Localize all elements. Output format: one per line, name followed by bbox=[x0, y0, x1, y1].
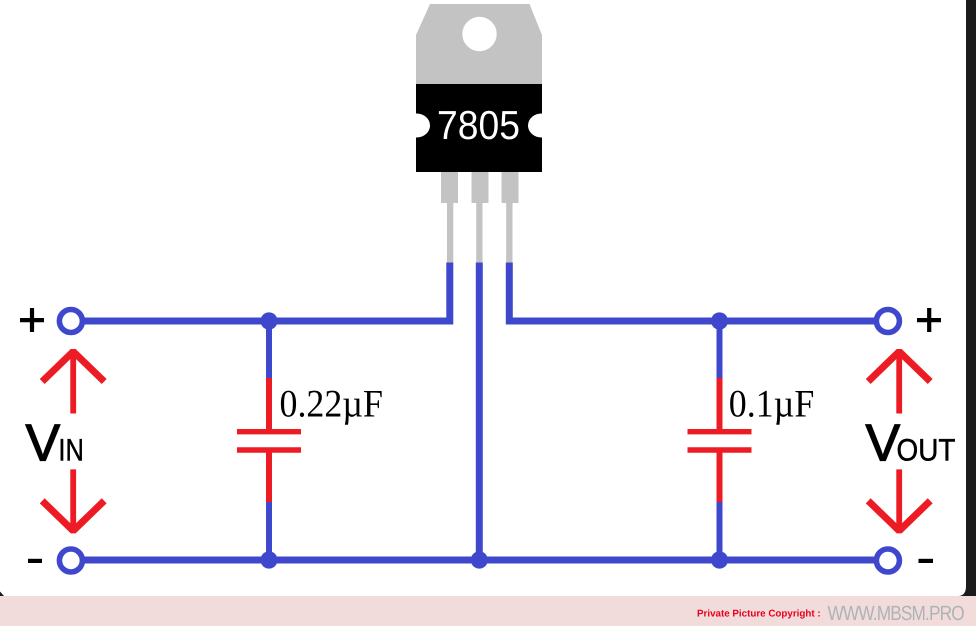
VOUT down arrow bbox=[868, 469, 930, 530]
U1 pin 1 thin lead bbox=[447, 203, 453, 263]
output plus sign bbox=[917, 308, 941, 332]
junction dot bottom rail / GND pin bbox=[471, 551, 488, 568]
U1 pin 1 wide lead bbox=[441, 172, 458, 203]
U1 right notch bbox=[528, 114, 555, 138]
svg-text:0.22µF: 0.22µF bbox=[280, 382, 383, 425]
output minus sign bbox=[919, 559, 934, 563]
junction dot input rail / C1 bbox=[260, 312, 277, 329]
VOUT label bbox=[866, 415, 956, 473]
input minus sign bbox=[28, 559, 42, 563]
wire: C1 branch upper blue segment bbox=[266, 321, 272, 381]
U1 pin 2 wide lead bbox=[472, 172, 489, 203]
wire: C1 branch lower blue segment bbox=[266, 499, 272, 560]
right black border bar bbox=[958, 0, 976, 596]
svg-text:Private Picture Copyright :: Private Picture Copyright : bbox=[697, 609, 821, 620]
wire: input rail from + terminal to pin 1 bbox=[85, 263, 450, 322]
output - terminal bbox=[876, 549, 899, 572]
input plus sign bbox=[20, 308, 44, 332]
wire: C2 branch lower blue segment bbox=[717, 499, 723, 560]
capacitor C2 0.1uF bbox=[688, 378, 752, 502]
capacitor C1 0.22uF bbox=[237, 378, 301, 502]
junction dot output rail / C2 bbox=[711, 312, 728, 329]
junction dot bottom rail / C1 bbox=[260, 551, 277, 568]
VOUT up arrow bbox=[868, 352, 930, 414]
U1 left notch bbox=[403, 114, 430, 138]
U1 pin 3 thin lead bbox=[506, 203, 512, 263]
svg-text:V: V bbox=[866, 415, 901, 473]
footer corner mark bbox=[0, 592, 4, 597]
svg-text:OUT: OUT bbox=[897, 433, 956, 468]
pink footer band bbox=[0, 596, 976, 626]
input + terminal bbox=[59, 310, 82, 333]
regulator U1 body bbox=[416, 84, 542, 172]
svg-text:7805: 7805 bbox=[437, 102, 520, 148]
svg-text:IN: IN bbox=[58, 433, 83, 468]
VIN label bbox=[26, 415, 84, 473]
svg-text:0.1µF: 0.1µF bbox=[729, 382, 814, 425]
wire: C2 branch upper blue segment bbox=[717, 321, 723, 381]
U1 pin 2 thin lead bbox=[476, 203, 482, 263]
wire: pin 2 (GND) down to bottom rail bbox=[476, 263, 483, 561]
VIN down arrow bbox=[42, 469, 104, 530]
wire: bottom rail bbox=[85, 557, 875, 564]
output + terminal bbox=[876, 310, 899, 333]
input - terminal bbox=[59, 549, 82, 572]
regulator U1 tab bbox=[416, 4, 542, 84]
U1 mounting hole bbox=[462, 17, 496, 51]
junction dot bottom rail / C2 bbox=[711, 551, 728, 568]
svg-text:WWW.MBSM.PRO: WWW.MBSM.PRO bbox=[828, 602, 964, 625]
VIN up arrow bbox=[42, 352, 104, 414]
svg-text:V: V bbox=[26, 415, 61, 473]
U1 pin 3 wide lead bbox=[502, 172, 519, 203]
wire: pin 3 to output rail bbox=[509, 263, 874, 322]
